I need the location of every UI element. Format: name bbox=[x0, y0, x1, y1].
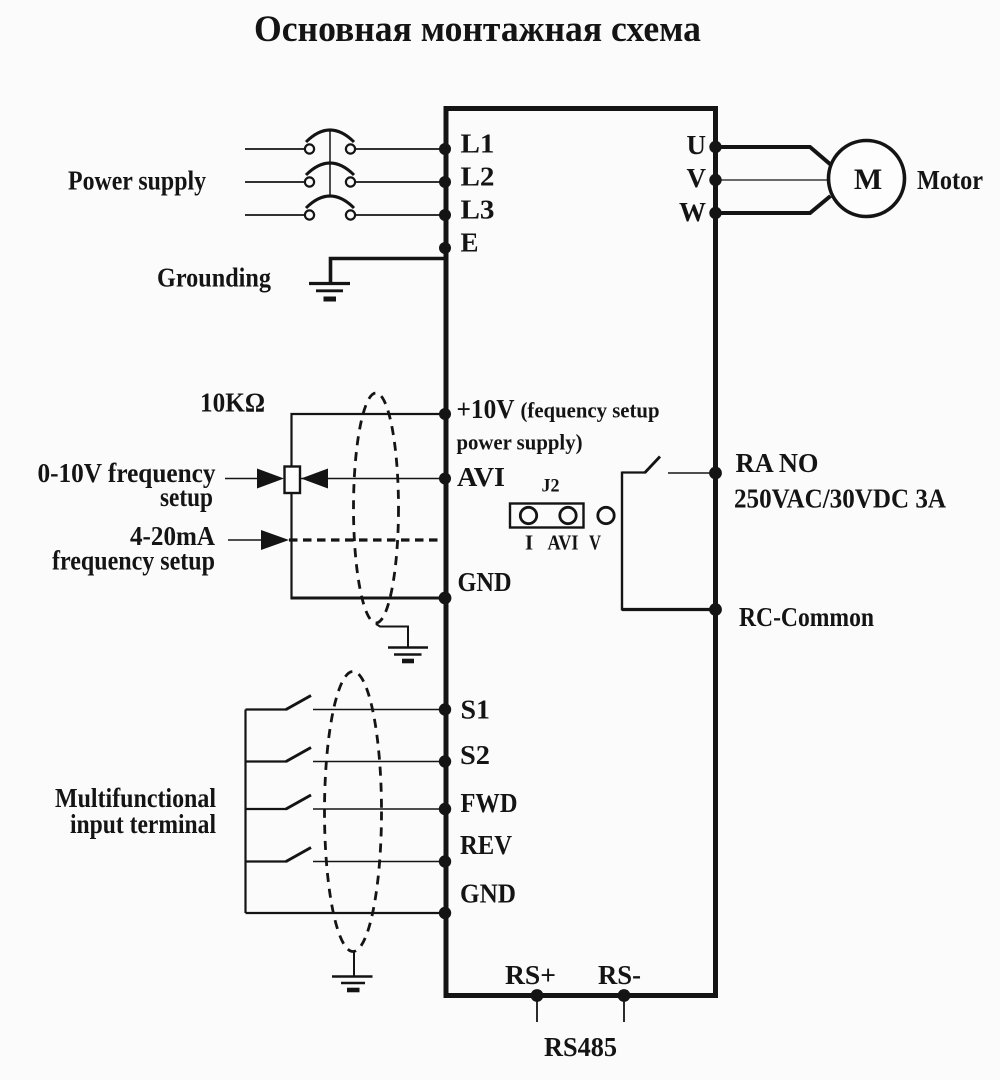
terminal dot V bbox=[709, 174, 721, 186]
terminal dot S2 bbox=[439, 755, 451, 767]
inverter box U1 bbox=[446, 109, 716, 996]
RS+ stub wire bbox=[536, 998, 538, 1022]
svg-text:V: V bbox=[687, 163, 707, 193]
wire V to motor bbox=[715, 179, 829, 181]
terminal dot RS+ bbox=[531, 989, 544, 1002]
terminal dot U bbox=[709, 141, 721, 153]
breaker pole contact circles row L2 bbox=[305, 177, 314, 186]
shield drain wire bbox=[376, 624, 408, 647]
switch S1 blade bbox=[286, 696, 311, 710]
svg-text:S2: S2 bbox=[460, 740, 490, 770]
svg-text:10KΩ: 10KΩ bbox=[200, 388, 265, 418]
svg-text:RS-: RS- bbox=[598, 960, 641, 990]
svg-text:RS485: RS485 bbox=[544, 1032, 617, 1062]
wire +10V from pot top bbox=[291, 413, 444, 415]
svg-text:AVI: AVI bbox=[457, 462, 505, 492]
dashed wire 4-20mA to AVI bbox=[289, 538, 443, 541]
terminal dot L3 bbox=[439, 209, 451, 221]
breaker arc row L1 bbox=[306, 130, 354, 142]
svg-text:power supply): power supply) bbox=[457, 430, 583, 455]
J2 pin V bbox=[598, 507, 614, 523]
svg-text:Основная монтажная схема: Основная монтажная схема bbox=[254, 9, 701, 50]
svg-text:FWD: FWD bbox=[461, 788, 518, 818]
switch FWD seg bbox=[246, 808, 288, 810]
wire W to motor bbox=[715, 196, 831, 213]
J2 pin AVI bbox=[560, 507, 576, 523]
svg-text:(fequency setup: (fequency setup bbox=[521, 398, 660, 423]
svg-text:L1: L1 bbox=[461, 129, 495, 159]
svg-text:frequency setup: frequency setup bbox=[52, 546, 215, 576]
breaker pole contact circles row L1 bbox=[305, 144, 314, 153]
svg-text:input terminal: input terminal bbox=[70, 809, 216, 839]
terminal dot W bbox=[709, 207, 721, 219]
svg-text:setup: setup bbox=[160, 482, 213, 512]
terminal dot +10V bbox=[439, 408, 451, 420]
wire U to motor bbox=[715, 147, 831, 165]
svg-text:Power supply: Power supply bbox=[68, 166, 206, 196]
wire L1 to terminal bbox=[356, 148, 443, 150]
ground symbol (mains earth) bbox=[309, 282, 350, 285]
svg-text:Grounding: Grounding bbox=[157, 263, 271, 293]
pot wiper arrow right bbox=[301, 469, 328, 489]
wire S1 bbox=[313, 709, 443, 711]
terminal dot S1 bbox=[439, 703, 451, 715]
breaker pole contact circles row L3 bbox=[305, 210, 314, 219]
wire L3 feed bbox=[245, 214, 304, 216]
switch FWD blade bbox=[286, 795, 311, 809]
svg-text:J2: J2 bbox=[542, 476, 560, 497]
wire L2 feed bbox=[245, 181, 304, 183]
svg-text:V: V bbox=[589, 531, 601, 555]
ground symbol (shield 2) bbox=[332, 975, 373, 978]
breaker link bar bbox=[329, 130, 331, 197]
svg-text:L3: L3 bbox=[461, 195, 495, 225]
svg-text:I: I bbox=[525, 531, 533, 555]
svg-text:E: E bbox=[461, 228, 479, 258]
svg-text:W: W bbox=[679, 197, 706, 227]
terminal dot GND analog bbox=[439, 592, 452, 605]
potentiometer R1 10K body bbox=[285, 467, 301, 494]
wire GND analog bbox=[291, 597, 444, 600]
svg-text:250VAC/30VDC 3A: 250VAC/30VDC 3A bbox=[734, 484, 946, 514]
svg-text:RA NO: RA NO bbox=[736, 448, 819, 478]
svg-text:L2: L2 bbox=[461, 162, 495, 192]
wire REV bbox=[313, 861, 443, 863]
shield ellipse digital cable bbox=[325, 672, 382, 952]
relay switch blade RA bbox=[645, 457, 660, 473]
motor M1 circle bbox=[829, 141, 905, 217]
J2 pin I bbox=[520, 507, 536, 523]
svg-text:GND: GND bbox=[458, 567, 512, 597]
wire S2 bbox=[313, 761, 443, 763]
terminal dot E bbox=[439, 242, 451, 254]
lead line 0-10V bbox=[225, 478, 260, 480]
terminal dot L2 bbox=[439, 176, 451, 188]
terminal dot RS- bbox=[618, 989, 631, 1002]
shield drain wire 2 bbox=[353, 952, 355, 976]
shield ellipse analog cable bbox=[354, 393, 399, 623]
multifunction bus wire bbox=[244, 710, 246, 914]
J2 jumper block bbox=[510, 504, 584, 528]
pot wiper arrow left bbox=[257, 469, 284, 489]
wire L2 to terminal bbox=[356, 181, 443, 183]
terminal dot FWD bbox=[439, 803, 451, 815]
switch S2 seg bbox=[246, 760, 288, 762]
wire AVI bbox=[300, 478, 443, 480]
RS- stub wire bbox=[623, 998, 625, 1022]
switch REV seg bbox=[246, 860, 288, 862]
lead line 4-20mA bbox=[228, 539, 262, 541]
relay wire RA bbox=[668, 472, 714, 474]
svg-text:RC-Common: RC-Common bbox=[739, 602, 874, 632]
svg-text:+10V: +10V bbox=[457, 394, 515, 424]
svg-text:REV: REV bbox=[460, 830, 512, 860]
terminal dot L1 bbox=[439, 143, 451, 155]
arrow 4-20mA bbox=[261, 530, 289, 550]
terminal dot AVI bbox=[439, 473, 451, 485]
pot left vertical wire upper bbox=[290, 413, 292, 467]
wire GND digital bbox=[246, 912, 444, 914]
svg-text:RS+: RS+ bbox=[505, 960, 556, 990]
switch REV blade bbox=[286, 848, 311, 862]
ground symbol (shield 1) bbox=[388, 646, 428, 649]
wire L3 to terminal bbox=[356, 214, 443, 216]
wire FWD bbox=[313, 808, 443, 810]
svg-text:Motor: Motor bbox=[917, 165, 983, 195]
terminal dot RA bbox=[709, 467, 722, 480]
svg-text:M: M bbox=[854, 163, 882, 196]
breaker arc row L3 bbox=[306, 196, 354, 208]
terminal dot RC bbox=[709, 603, 722, 616]
pot left vertical wire lower bbox=[290, 492, 292, 599]
svg-text:U: U bbox=[687, 130, 707, 160]
breaker arc row L2 bbox=[306, 163, 354, 175]
switch S1 seg bbox=[246, 708, 288, 710]
terminal dot REV bbox=[439, 855, 451, 867]
grounding wire bbox=[331, 259, 447, 283]
relay wire RC bbox=[622, 608, 714, 611]
svg-text:AVI: AVI bbox=[548, 531, 579, 555]
svg-text:S1: S1 bbox=[461, 695, 491, 725]
relay left vertical wire bbox=[621, 472, 623, 611]
svg-text:GND: GND bbox=[460, 879, 516, 909]
terminal dot GND digital bbox=[439, 907, 451, 919]
relay wire left seg bbox=[622, 471, 646, 473]
wire L1 feed bbox=[245, 148, 304, 150]
switch S2 blade bbox=[286, 748, 311, 762]
